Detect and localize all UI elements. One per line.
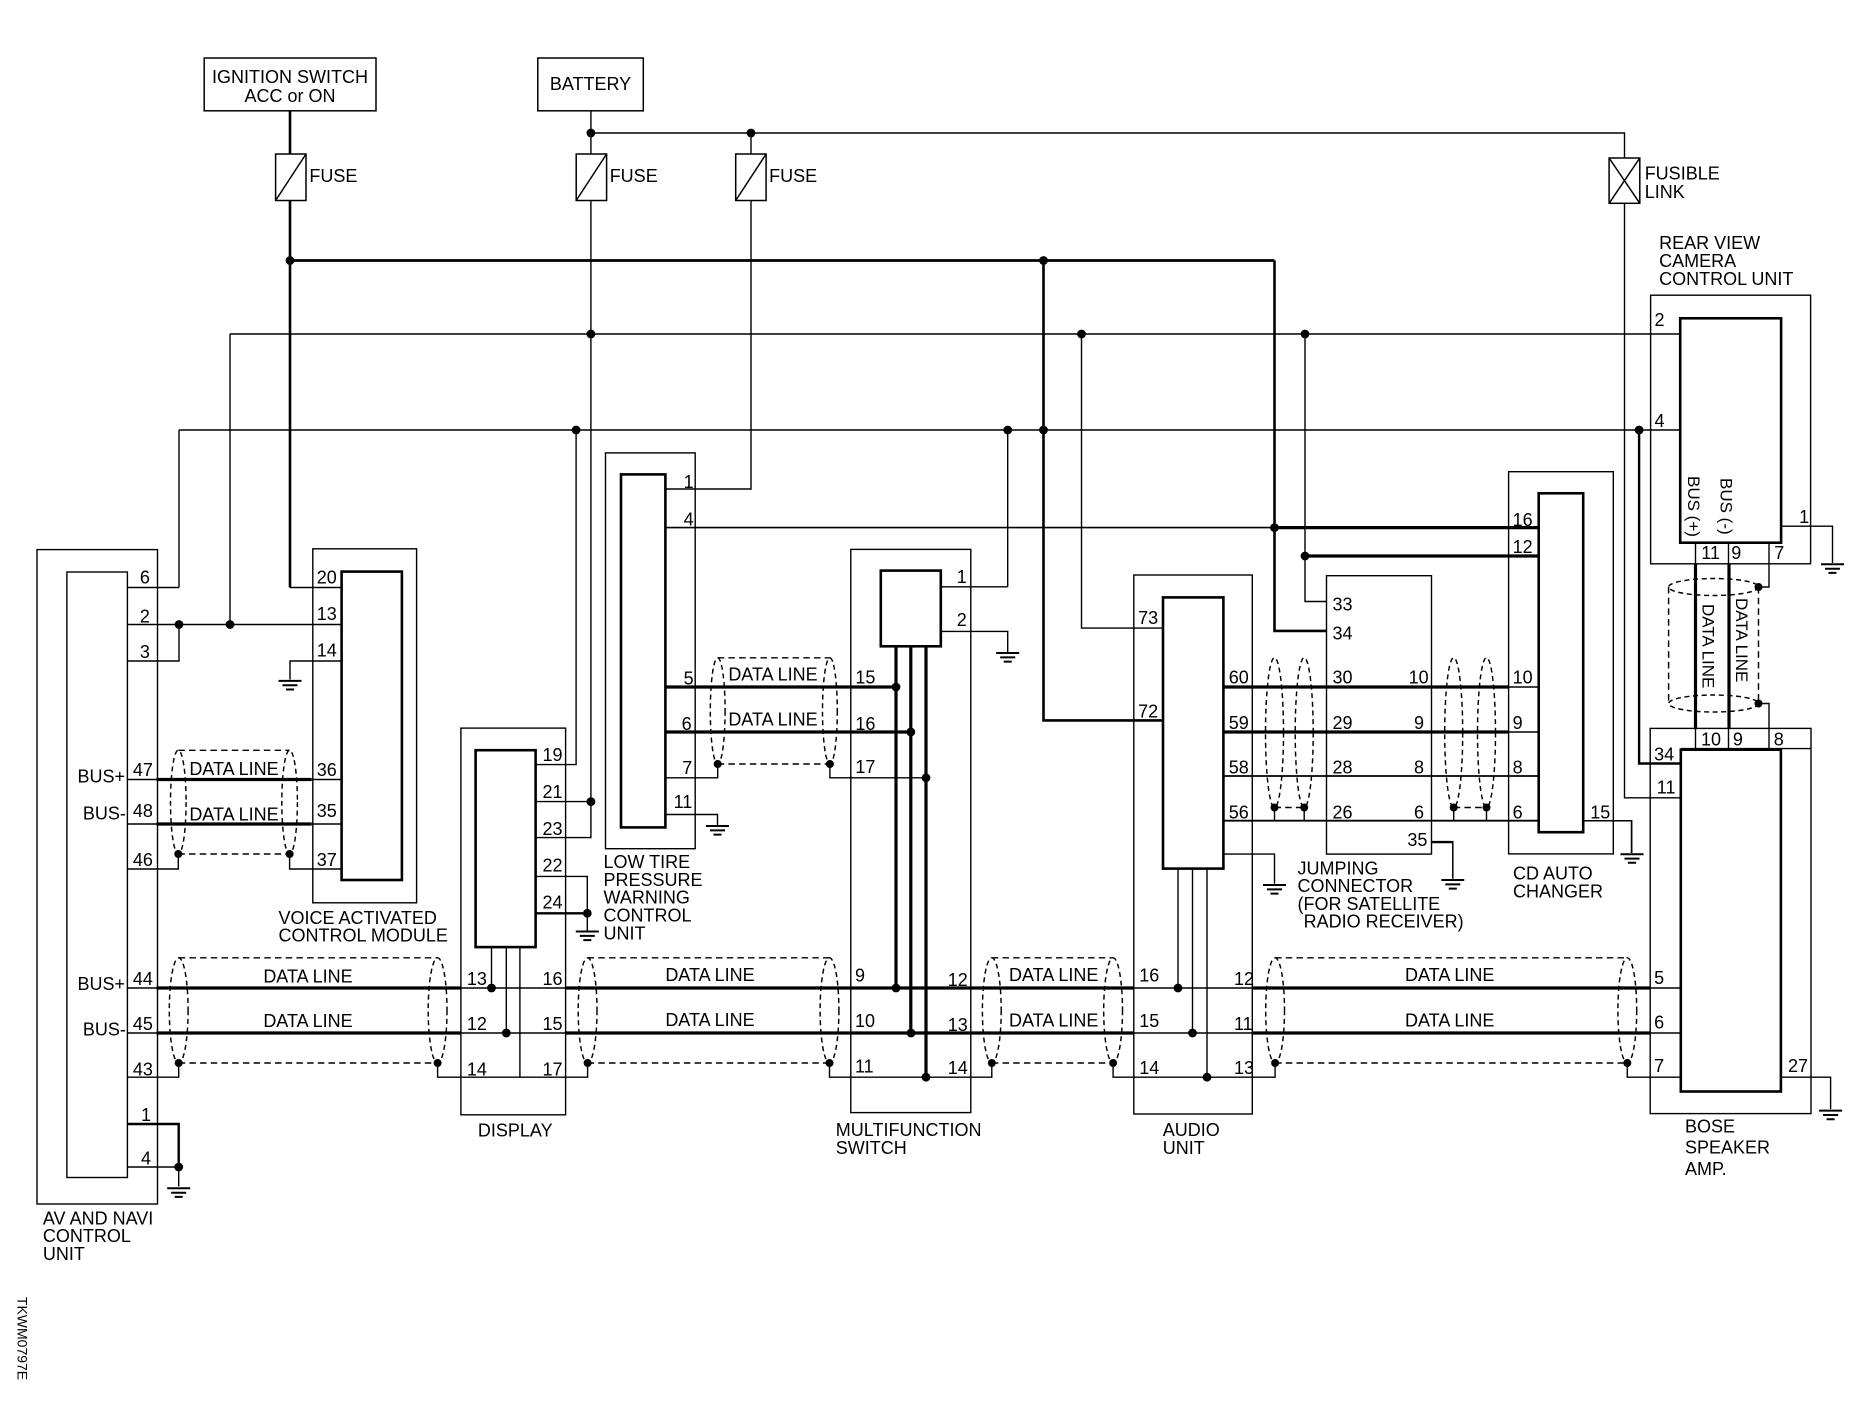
node battery junction [587,129,596,138]
node shield B left [584,1059,592,1067]
svg-text:AMP.: AMP. [1685,1159,1727,1179]
ground audio [1263,885,1286,894]
wire AV pin47 BUS+ to voice pin36 [127,779,156,781]
svg-text:43: 43 [133,1059,153,1079]
ground CD pin15 [1621,854,1644,863]
svg-text:26: 26 [1333,802,1353,822]
svg-text:73: 73 [1138,608,1158,628]
wire AV pin3 [127,625,179,662]
CD auto changer outer box [1509,472,1614,854]
fuse F1 [276,154,306,201]
node display pin24 [583,909,592,918]
wire fusible link down to bose pin11 [1625,203,1681,798]
wire shield B [588,1062,830,1064]
multifunction connector box [881,571,941,647]
node y430 camera/bose34 branch [1635,426,1644,435]
wire shield camera bottom to bose8 [1759,704,1770,729]
svg-text:10: 10 [1409,668,1429,688]
shield cylinder camera [1669,579,1759,596]
battery box [538,58,644,111]
svg-text:13: 13 [317,604,337,624]
node multifunction pin16 [906,728,915,737]
svg-text:14: 14 [948,1058,968,1078]
svg-text:23: 23 [543,819,563,839]
svg-text:28: 28 [1333,758,1353,778]
wire voice pin37 [290,854,342,869]
audio unit outer box [1134,575,1253,1114]
svg-text:FUSE: FUSE [769,166,817,186]
wire jumping pin35 to ground [1432,841,1453,843]
shield capsule D [1266,958,1285,1063]
node BUS+ display13 [487,984,496,993]
svg-text:16: 16 [1139,966,1159,986]
svg-text:13: 13 [467,969,487,989]
bose connector box [1681,750,1781,1092]
svg-text:DATA LINE: DATA LINE [263,1011,352,1031]
bose speaker amp outer box [1650,728,1811,1113]
svg-text:DATA LINE: DATA LINE [189,804,278,824]
svg-text:4: 4 [141,1149,151,1169]
svg-text:DATA LINE: DATA LINE [1699,604,1718,688]
wire battery to fuse F3 [750,133,752,154]
wire battery feed to fusible link [591,133,1625,158]
svg-text:60: 60 [1229,668,1249,688]
wire multifunction pin2 to ground [941,631,1008,652]
svg-text:SWITCH: SWITCH [836,1138,907,1158]
node BUS- multifunction [907,1029,916,1038]
svg-text:DATA LINE: DATA LINE [1009,965,1098,985]
wire display pin23 [536,802,591,838]
svg-text:LINK: LINK [1645,182,1685,202]
svg-text:AUDIO: AUDIO [1163,1120,1220,1140]
svg-text:BOSE: BOSE [1685,1116,1735,1136]
wire shield D [1275,1062,1627,1064]
node shield A right [434,1059,442,1067]
display outer box [461,728,566,1115]
wire battery down to fuse F2 [590,111,592,154]
svg-text:24: 24 [543,893,563,913]
wire shield jc stubs [1453,808,1455,821]
ground display pin24 [576,932,599,941]
node x1274 on CD16 row [1270,523,1279,532]
audio connector box [1163,597,1223,868]
wire display pin22 [536,876,588,913]
wire battery bus y334 [230,333,1680,335]
shield pair jumping-CD [1445,658,1463,808]
node shield jc right [1483,804,1491,812]
svg-text:9: 9 [1513,713,1523,733]
shield capsule low tire [710,658,725,764]
node y430 audio72 vertical [1039,426,1048,435]
svg-text:33: 33 [1333,595,1353,615]
svg-text:2: 2 [1655,310,1665,330]
voice activated control module outer box [313,549,417,903]
svg-text:12: 12 [1234,969,1254,989]
jumping connector box [1327,576,1432,854]
node shield camera bottom [1755,700,1763,708]
svg-text:30: 30 [1333,668,1353,688]
wire audio pin58 row [1223,775,1538,777]
node shield D left [1271,1059,1279,1067]
node AV pin2/3 junction [175,620,184,629]
wire audio ground [1223,854,1274,884]
svg-text:7: 7 [682,758,692,778]
svg-text:4: 4 [1655,411,1665,431]
ground voice pin14 [279,681,302,690]
svg-text:9: 9 [855,966,865,986]
svg-text:3: 3 [140,642,150,662]
wire bose pin27 to ground [1781,1077,1831,1109]
wire display pin19 up [536,430,577,765]
svg-text:11: 11 [1701,543,1720,563]
svg-text:14: 14 [467,1059,487,1079]
svg-text:5: 5 [684,668,694,688]
AV and navi control unit outer box [37,550,158,1204]
rear view camera outer box [1651,295,1811,564]
svg-text:DATA LINE: DATA LINE [1405,1011,1494,1031]
wire AV pin4 to ground [178,1167,180,1187]
node y334 fuse2 [587,330,596,339]
shield capsule C [982,958,1001,1063]
fusible link [1609,158,1640,203]
camera pin strip ticks [1695,543,1697,564]
svg-text:47: 47 [133,760,153,780]
svg-text:DATA LINE: DATA LINE [665,1010,754,1030]
wire shield low tire [718,763,830,765]
svg-text:DATA LINE: DATA LINE [263,967,352,987]
wire camera pin1 to ground [1781,526,1832,563]
svg-text:5: 5 [1654,968,1664,988]
wire multifunction pin17 stub [830,764,926,778]
svg-text:12: 12 [467,1014,487,1034]
wire y430 down to AV pin6 [178,430,180,588]
svg-text:DATA LINE: DATA LINE [728,664,817,684]
wire x1081 down to audio pin73 [1082,334,1164,628]
svg-text:UNIT: UNIT [1163,1138,1205,1158]
svg-text:35: 35 [1407,830,1427,850]
node ACC bus to audio72 branch [1039,256,1048,265]
svg-text:20: 20 [317,568,337,588]
wire AV pin1 [127,1124,178,1167]
ignition switch box [204,58,376,111]
wire CD pin16 row [665,527,1274,529]
fuse F3 [736,154,766,201]
svg-text:RADIO RECEIVER): RADIO RECEIVER) [1304,912,1464,932]
svg-text:59: 59 [1229,713,1249,733]
svg-text:8: 8 [1513,758,1523,778]
svg-text:7: 7 [1654,1056,1664,1076]
svg-text:11: 11 [1234,1014,1253,1034]
wire shield audio-jumping [1275,807,1305,809]
svg-text:SPEAKER: SPEAKER [1685,1138,1770,1158]
svg-text:16: 16 [1513,510,1533,530]
svg-text:14: 14 [1139,1058,1159,1078]
svg-text:8: 8 [1414,758,1424,778]
wire audio pin56 row [1223,820,1538,822]
svg-text:4: 4 [684,510,694,530]
svg-text:1: 1 [684,472,694,492]
wire camera BUS- down to bose9 [1727,564,1730,729]
ground camera pin1 [1821,564,1844,573]
svg-text:IGNITION SWITCH: IGNITION SWITCH [212,67,368,87]
svg-text:1: 1 [1799,507,1809,527]
svg-text:56: 56 [1229,802,1249,822]
wire voice pin20 [290,587,342,589]
svg-text:17: 17 [543,1059,563,1079]
wire AV pin6 [127,587,179,589]
node shield B right [826,1059,834,1067]
wire voice pin14 to ground [290,661,342,680]
CD auto changer connector box [1539,493,1584,832]
svg-text:2: 2 [957,610,967,630]
svg-text:TKWM0797E: TKWM0797E [15,1297,31,1380]
voice activated connector box [342,572,402,880]
node y334 audio73 branch [1077,330,1086,339]
low tire pressure outer box [606,453,696,849]
wire shield C [992,1062,1113,1064]
wire camera BUS+ down to bose10 [1694,564,1697,729]
wire low tire pin11 to ground [665,815,717,826]
svg-text:16: 16 [855,714,875,734]
AV and navi connector box [67,572,128,1178]
svg-text:BUS+: BUS+ [78,974,126,994]
svg-text:MULTIFUNCTION: MULTIFUNCTION [836,1120,982,1140]
svg-text:6: 6 [1654,1012,1664,1032]
low tire pressure connector box [621,474,665,827]
svg-text:UNIT: UNIT [43,1244,85,1264]
svg-text:10: 10 [1701,729,1721,749]
node shield right voice37 [286,850,294,858]
wire fuse F1 down to voice pin20 row [289,201,292,588]
svg-text:46: 46 [133,850,153,870]
wire AV pin4 [127,1166,178,1168]
wire AV pin46 [127,854,178,869]
svg-text:BATTERY: BATTERY [550,74,631,94]
ground low tire pin11 [706,826,729,835]
wire AV pin48 BUS- to voice pin35 [127,823,156,825]
node BUS+ multifunction [892,984,901,993]
svg-text:12: 12 [948,970,968,990]
svg-text:DATA LINE: DATA LINE [728,710,817,730]
wire x1305 down to jumping pin33 [1305,334,1327,602]
svg-text:29: 29 [1333,713,1353,733]
bose pin strip [1681,748,1811,750]
svg-text:DATA LINE: DATA LINE [1732,598,1751,682]
wire audio stub13 [1206,869,1208,1078]
wire audio pin59 row [1223,730,1508,733]
wire camera pin7 shield top [1759,564,1770,587]
svg-text:17: 17 [855,757,875,777]
wire multifunction vertical 15 [894,646,897,988]
wire shield jumping-CD [1454,807,1487,809]
wire shield AV-voice [178,853,289,855]
svg-text:ACC or ON: ACC or ON [244,86,335,106]
shield capsule AV-voice [171,750,187,854]
wire shield aj stubs [1274,808,1276,821]
svg-text:15: 15 [543,1014,563,1034]
wire low tire pin6 row [665,730,910,733]
wire CD pin15 to ground [1583,820,1631,822]
svg-text:21: 21 [543,782,563,802]
wire BUS+ row y988 [127,987,156,989]
svg-text:15: 15 [855,668,875,688]
svg-text:34: 34 [1654,744,1674,764]
svg-text:DATA LINE: DATA LINE [189,759,278,779]
wire audio stub12 [1177,869,1179,988]
wire display pin24 ground stub [586,913,588,930]
svg-text:10: 10 [1513,668,1533,688]
wire audio stub11 [1192,869,1194,1033]
svg-text:BUS-: BUS- [83,1020,126,1040]
node multifunction pin15 [892,683,901,692]
node shield D right [1623,1059,1631,1067]
svg-text:CONTROL UNIT: CONTROL UNIT [1659,269,1793,289]
wire ACC bus y430 [179,429,1680,431]
svg-text:BUS+: BUS+ [78,766,126,786]
wire x1639 down to bose pin34 [1639,430,1681,764]
svg-text:13: 13 [948,1015,968,1035]
node shield left AV46 [174,850,182,858]
node AV pin2 row x230 [226,620,235,629]
svg-text:10: 10 [855,1011,875,1031]
svg-text:7: 7 [1774,543,1784,563]
wire y334 down to AV pin2 row [229,334,231,625]
svg-text:11: 11 [855,1057,874,1077]
svg-text:6: 6 [1414,802,1424,822]
node y430 multifunction1 branch [1003,426,1012,435]
svg-text:72: 72 [1138,702,1158,722]
wire display stub12 [505,947,507,1033]
wire ignition to fuse F1 [289,111,292,154]
wire fuse F3 down to low-tire pin1 [665,201,751,490]
wire multifunction vertical 17 [924,646,927,1077]
rear view camera connector box [1680,318,1781,542]
node shield audio13 [1203,1073,1212,1082]
node battery feed to fuse F3 [747,129,756,138]
svg-text:15: 15 [1590,802,1610,822]
ground jumping pin35 [1441,880,1464,889]
ground AV pin4 [167,1188,190,1197]
svg-text:FUSE: FUSE [309,166,357,186]
node shield A left [175,1059,183,1067]
node display pin21 [587,797,596,806]
node shield C left [988,1059,996,1067]
svg-text:BUS (+): BUS (+) [1684,476,1703,537]
svg-text:BUS-: BUS- [83,804,126,824]
svg-text:36: 36 [317,760,337,780]
svg-text:9: 9 [1733,729,1743,749]
svg-text:CONTROL MODULE: CONTROL MODULE [279,926,448,946]
shield capsule A [169,958,188,1063]
wire shield stub row y1077 [127,1063,178,1077]
svg-text:44: 44 [133,969,153,989]
svg-text:34: 34 [1333,624,1353,644]
node shield aj right [1300,804,1308,812]
svg-text:11: 11 [674,792,693,812]
svg-text:2: 2 [140,607,150,627]
svg-text:37: 37 [317,850,337,870]
shield pair audio-jumping [1266,658,1284,808]
svg-text:58: 58 [1229,758,1249,778]
wire shield A [179,1062,438,1064]
ground multifunction pin2 [996,653,1019,662]
node y430 display19 branch [572,426,581,435]
wire display pin24 [536,912,588,914]
svg-text:22: 22 [543,856,563,876]
node fuse1/ACC junction [286,256,295,265]
svg-text:11: 11 [1657,778,1676,798]
ground bose pin27 [1819,1111,1842,1120]
node BUS+ audio12 [1174,984,1183,993]
wire display stub13 [491,947,493,988]
wire display pin21 [536,801,591,803]
wire fuse F2 down to display pin21 [590,201,592,802]
node shield jc left [1450,804,1458,812]
node y334 CD12 branch [1301,330,1310,339]
fuse F2 [576,154,606,201]
wire multifunction pin1 up [1007,430,1009,587]
wire ACC bus y260 [290,259,1275,262]
node shield C right [1109,1059,1117,1067]
node multifunction pin17 [922,773,931,782]
node BUS- audio11 [1188,1029,1197,1038]
svg-text:FUSIBLE: FUSIBLE [1645,164,1720,184]
wire audio pin60 row [1223,685,1508,688]
svg-text:CHANGER: CHANGER [1513,881,1603,901]
svg-text:19: 19 [543,745,563,765]
svg-text:13: 13 [1234,1058,1254,1078]
wire multifunction vertical 16 [909,646,912,1033]
node shield lt left [714,760,722,768]
svg-text:6: 6 [682,714,692,734]
svg-text:6: 6 [1513,802,1523,822]
svg-text:DISPLAY: DISPLAY [478,1120,553,1140]
svg-text:8: 8 [1774,729,1784,749]
svg-text:UNIT: UNIT [604,923,646,943]
node x1305 on CD12 row [1301,552,1310,561]
wire low tire pin5 row [665,685,896,688]
svg-text:DATA LINE: DATA LINE [1009,1011,1098,1031]
node shield aj left [1271,804,1279,812]
wire AV pin2 row to voice pin13 [127,624,341,626]
svg-text:27: 27 [1788,1056,1808,1076]
display connector box [476,750,536,947]
wire CD pin12 row [1305,554,1539,557]
svg-text:DATA LINE: DATA LINE [665,965,754,985]
node shield multifunction [922,1073,931,1082]
svg-text:16: 16 [543,969,563,989]
svg-text:BUS (-): BUS (-) [1717,478,1736,535]
svg-text:9: 9 [1731,543,1741,563]
node shield lt right [826,760,834,768]
multifunction switch outer box [851,549,971,1112]
svg-text:6: 6 [140,568,150,588]
svg-text:48: 48 [133,801,153,821]
shield capsule B [578,958,597,1063]
svg-text:FUSE: FUSE [610,166,658,186]
svg-text:14: 14 [317,641,337,661]
wire display stub14 [519,947,521,1077]
svg-text:15: 15 [1139,1011,1159,1031]
svg-text:35: 35 [317,801,337,821]
wire x1043 down to audio pin72 [1044,261,1164,721]
node AV pin1/4 junction [174,1163,183,1172]
wire BUS- row y1033 [127,1032,156,1034]
svg-text:9: 9 [1414,713,1424,733]
wire multifunction pin1 [941,586,1008,588]
svg-text:1: 1 [141,1105,151,1125]
svg-text:1: 1 [957,567,967,587]
